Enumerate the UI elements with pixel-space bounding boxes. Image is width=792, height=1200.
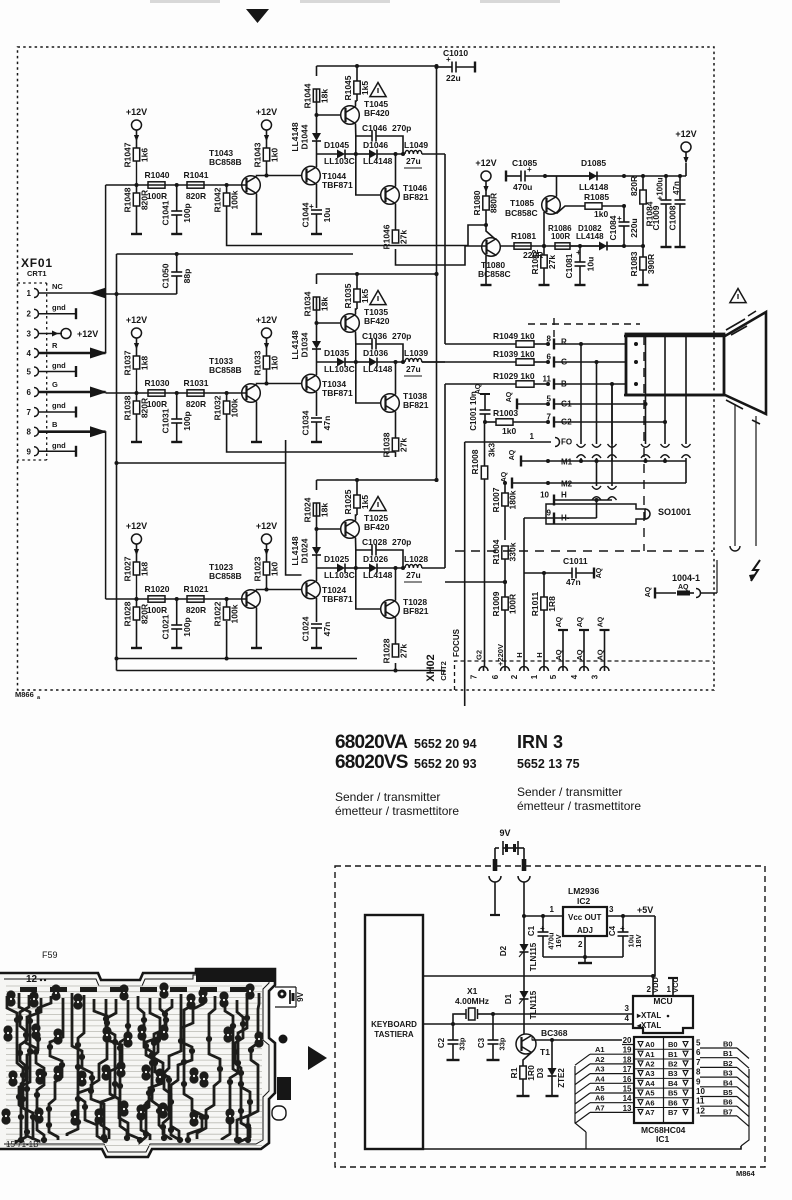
connector XH02 dashed box — [455, 661, 714, 690]
ground for C1034 — [311, 441, 322, 443]
svg-text:3k3: 3k3 — [487, 443, 497, 457]
svg-text:M866: M866 — [15, 690, 34, 699]
svg-text:X1: X1 — [467, 986, 478, 996]
svg-text:D1045: D1045 — [324, 140, 349, 150]
svg-text:3: 3 — [609, 905, 614, 914]
svg-text:IC1: IC1 — [656, 1134, 670, 1144]
spark gap columns R G B — [580, 344, 582, 444]
pin 5 gnd stub — [39, 371, 77, 373]
svg-text:R1033: R1033 — [253, 350, 263, 375]
svg-text:D1085: D1085 — [581, 158, 606, 168]
svg-text:16: 16 — [623, 1075, 632, 1084]
svg-text:ZTE2: ZTE2 — [557, 1068, 566, 1088]
row B to CRT pin 11 — [445, 383, 516, 385]
svg-text:19: 19 — [623, 1046, 632, 1055]
svg-text:MCU: MCU — [653, 996, 672, 1006]
svg-text:22u: 22u — [446, 73, 461, 83]
svg-text:17: 17 — [623, 1065, 632, 1074]
svg-text:A5: A5 — [645, 1089, 655, 1098]
PCB scanlines — [6, 986, 262, 1146]
svg-text:C1046: C1046 — [362, 123, 387, 133]
transistor T1034 TBF871 — [302, 374, 321, 393]
svg-text:BF420: BF420 — [364, 108, 390, 118]
supply rail +12V out — [545, 175, 686, 177]
svg-text:+12V: +12V — [475, 158, 496, 168]
resistor R1037 1k8 — [136, 348, 138, 356]
svg-text:+12V: +12V — [256, 107, 277, 117]
svg-text:100R: 100R — [147, 605, 167, 615]
svg-text:33p: 33p — [498, 1037, 507, 1050]
svg-text:7: 7 — [547, 413, 552, 422]
svg-text:L1039: L1039 — [404, 348, 428, 358]
transistor T1025 BF420 — [341, 520, 360, 539]
diode D1034 LL4148 — [316, 349, 318, 362]
svg-text:R1038: R1038 — [382, 432, 392, 457]
svg-text:2: 2 — [27, 310, 32, 319]
svg-text:R1028: R1028 — [123, 601, 133, 626]
svg-text:Sender / transmitter: Sender / transmitter — [335, 790, 440, 804]
transistor T1085 BC858C — [542, 196, 561, 215]
svg-text:R1041: R1041 — [183, 170, 208, 180]
wire T1080 collector — [486, 225, 495, 239]
diode D1044 LL4148 — [316, 141, 318, 154]
svg-text:5: 5 — [549, 674, 558, 679]
svg-text:C1041: C1041 — [161, 200, 171, 225]
resistor R1083 390R — [642, 246, 644, 257]
svg-text:R1048: R1048 — [123, 187, 133, 212]
svg-text:D2: D2 — [499, 945, 508, 956]
svg-text:+100u: +100u — [656, 177, 665, 200]
svg-text:D1026: D1026 — [363, 554, 388, 564]
svg-text:T1: T1 — [540, 1047, 550, 1057]
resistor R1022 100k — [226, 599, 228, 607]
svg-text:5: 5 — [547, 395, 552, 404]
svg-text:A4: A4 — [595, 1074, 605, 1083]
svg-text:9: 9 — [696, 1077, 701, 1086]
svg-text:C1044: C1044 — [301, 202, 311, 227]
wire +5V to VDD — [653, 916, 655, 976]
svg-text:LL103C: LL103C — [324, 364, 355, 374]
svg-text:+12V: +12V — [256, 315, 277, 325]
PCB top pads row — [20, 987, 247, 992]
resistor R1044 18k — [316, 89, 318, 115]
svg-text:+220V: +220V — [496, 644, 505, 666]
resistor R1082 27k — [543, 246, 545, 255]
svg-text:18: 18 — [623, 1055, 632, 1064]
svg-text:D1: D1 — [504, 993, 513, 1004]
svg-text:1R0: 1R0 — [526, 1065, 536, 1081]
svg-text:C1028: C1028 — [362, 537, 387, 547]
svg-text:H: H — [515, 652, 524, 657]
capacitor C1034 47n — [316, 392, 318, 416]
svg-text:18V: 18V — [634, 934, 643, 947]
svg-text:R1083: R1083 — [629, 251, 639, 276]
svg-text:18k: 18k — [320, 503, 330, 517]
svg-text:+12V: +12V — [126, 315, 147, 325]
wire T1085 base drop — [543, 212, 545, 246]
row R to CRT pin 8 — [445, 343, 516, 345]
svg-text:AQ: AQ — [509, 449, 516, 460]
wire battery + down — [494, 882, 496, 915]
svg-text:C1031: C1031 — [161, 408, 171, 433]
svg-text:1: 1 — [530, 432, 535, 441]
wire T1033 collector — [257, 384, 267, 385]
bottom rail keyboard — [423, 1146, 741, 1149]
svg-text:ADJ: ADJ — [577, 926, 593, 935]
wire to T1044 base — [267, 175, 302, 177]
svg-text:AQ: AQ — [506, 391, 513, 402]
CRT anode lead — [734, 404, 736, 546]
wire R1022 to bottom return — [226, 621, 228, 659]
PCB pads — [1, 982, 263, 1143]
svg-text:A7: A7 — [645, 1108, 655, 1117]
svg-text:BC858C: BC858C — [478, 269, 511, 279]
svg-text:+12V: +12V — [675, 129, 696, 139]
svg-text:R1004: R1004 — [491, 539, 501, 564]
svg-text:2: 2 — [510, 674, 519, 679]
wire T1045 emitter to diode row — [355, 136, 357, 154]
svg-text:R1038: R1038 — [123, 395, 133, 420]
resistor R1047 1k6 — [136, 140, 138, 148]
svg-text:9V: 9V — [296, 991, 305, 1001]
wire KEYBOARD to VDD row — [424, 975, 653, 977]
svg-text:B6: B6 — [668, 1098, 678, 1107]
wire R1026 bottom — [395, 663, 397, 671]
svg-text:R1023: R1023 — [253, 556, 263, 581]
svg-text:B7: B7 — [723, 1107, 733, 1116]
svg-text:BC368: BC368 — [541, 1028, 568, 1038]
svg-text:Sender / transmitter: Sender / transmitter — [517, 785, 622, 799]
svg-text:C4: C4 — [608, 925, 617, 936]
svg-text:820R: 820R — [140, 190, 150, 210]
svg-text:1k0: 1k0 — [270, 562, 280, 576]
svg-text:10: 10 — [696, 1087, 705, 1096]
svg-text:330k: 330k — [508, 542, 518, 561]
svg-text:AQ: AQ — [501, 471, 508, 482]
svg-text:R1039 1k0: R1039 1k0 — [493, 349, 535, 359]
svg-text:gnd: gnd — [52, 303, 66, 312]
svg-text:1k0: 1k0 — [594, 209, 608, 219]
svg-text:BC858B: BC858B — [209, 365, 242, 375]
svg-text:B5: B5 — [668, 1089, 678, 1098]
svg-text:R1040: R1040 — [144, 170, 169, 180]
svg-text:1k8: 1k8 — [140, 562, 150, 576]
left bus vertical — [575, 1066, 586, 1132]
wire shield row top — [117, 253, 354, 255]
svg-text:R1034: R1034 — [303, 291, 313, 316]
wire T1043 emitter to ground — [256, 194, 258, 235]
svg-text:27k: 27k — [399, 230, 409, 244]
svg-text:émetteur / trasmettitore: émetteur / trasmettitore — [335, 804, 459, 818]
resistor R1046 27k — [395, 204, 397, 231]
svg-text:R1082: R1082 — [530, 249, 540, 274]
svg-text:11: 11 — [696, 1097, 705, 1106]
wire T1028 base from diode node — [356, 568, 381, 609]
svg-text:R1037: R1037 — [123, 350, 133, 375]
resistor R1048 820R — [136, 185, 138, 193]
resistor R1038 820R — [136, 393, 138, 401]
CRT flash lead — [755, 416, 757, 546]
svg-text:▸XTAL: ▸XTAL — [636, 1011, 661, 1020]
keyboard PCB board outline — [0, 969, 275, 1157]
svg-text:BF821: BF821 — [403, 606, 429, 616]
svg-text:C1011: C1011 — [563, 556, 588, 566]
ground rail IC2 — [543, 956, 623, 958]
svg-text:BC858B: BC858B — [209, 157, 242, 167]
svg-text:100R: 100R — [147, 191, 167, 201]
svg-text:R1022: R1022 — [213, 601, 223, 626]
svg-text:C1008: C1008 — [668, 205, 678, 230]
pin 3 +12V — [39, 333, 63, 335]
svg-text:TLN115: TLN115 — [529, 990, 538, 1019]
svg-text:B5: B5 — [723, 1088, 733, 1097]
capacitor C1041 100p — [176, 185, 178, 211]
top rail of output stage — [317, 273, 437, 275]
resistor R1034 18k — [316, 297, 318, 323]
svg-text:1k5: 1k5 — [360, 289, 370, 303]
svg-text:IRN 3: IRN 3 — [517, 732, 563, 752]
svg-text:C1084: C1084 — [608, 215, 618, 240]
svg-text:4: 4 — [27, 349, 32, 358]
svg-text:G2: G2 — [475, 650, 484, 660]
svg-text:TBF871: TBF871 — [322, 180, 353, 190]
svg-text:B4: B4 — [723, 1078, 733, 1087]
svg-text:A7: A7 — [595, 1103, 605, 1112]
svg-text:AQ: AQ — [596, 649, 605, 660]
svg-text:XF01: XF01 — [21, 256, 53, 270]
PCB rounded hole — [272, 1106, 286, 1120]
pin 8 B line and arrow — [39, 430, 106, 433]
svg-text:R1020: R1020 — [144, 584, 169, 594]
PCB traces — [7, 993, 259, 1142]
row 246 supply — [501, 245, 644, 247]
capacitor C1050 88p — [176, 254, 178, 272]
transistor T1045 BF420 — [341, 106, 360, 125]
capacitor C1024 47n — [316, 598, 318, 622]
svg-text:M864: M864 — [736, 1169, 756, 1178]
svg-text:180k: 180k — [508, 490, 518, 509]
CRT funnel — [624, 312, 766, 414]
svg-text:2: 2 — [578, 940, 583, 949]
svg-text:B4: B4 — [668, 1079, 678, 1088]
connector XF01 dashed box — [18, 283, 47, 460]
svg-text:VDD: VDD — [651, 977, 660, 993]
svg-text:820R: 820R — [186, 605, 206, 615]
svg-text:émetteur / trasmettitore: émetteur / trasmettitore — [517, 799, 641, 813]
MCU block — [633, 996, 693, 1033]
wire T1046 base from diode node — [356, 154, 381, 195]
wire T1044 collector riser — [316, 154, 318, 167]
IC1 port cells — [638, 1042, 643, 1047]
svg-text:M1: M1 — [561, 458, 573, 467]
svg-text:1k5: 1k5 — [360, 495, 370, 509]
svg-text:B2: B2 — [723, 1059, 733, 1068]
svg-text:6: 6 — [27, 388, 32, 397]
PCB black square — [277, 1077, 291, 1100]
svg-text:R1028: R1028 — [382, 638, 392, 663]
wire T1085 emitter to R1085 — [557, 206, 586, 214]
svg-text:270p: 270p — [392, 331, 411, 341]
svg-text:R1027: R1027 — [123, 556, 133, 581]
svg-text:AQ: AQ — [598, 616, 605, 627]
svg-text:B3: B3 — [723, 1069, 733, 1078]
svg-text:R1011: R1011 — [530, 591, 540, 616]
svg-text:R1029 1k0: R1029 1k0 — [493, 371, 535, 381]
svg-text:8: 8 — [696, 1068, 701, 1077]
svg-text:R1035: R1035 — [343, 283, 353, 308]
wire T1038 base from diode node — [356, 362, 381, 403]
svg-text:1: 1 — [530, 674, 539, 679]
svg-text:B2: B2 — [668, 1060, 678, 1069]
svg-text:B3: B3 — [668, 1069, 678, 1078]
resistor R1033 1k0 — [266, 348, 268, 356]
svg-text:LL103C: LL103C — [324, 570, 355, 580]
wire T1028 collector — [395, 568, 397, 601]
svg-text:G1: G1 — [561, 400, 572, 409]
capacitor C1021 100p — [176, 599, 178, 625]
svg-text:A6: A6 — [645, 1098, 655, 1107]
svg-text:+5V: +5V — [637, 905, 653, 915]
pin 2 gnd stub — [39, 313, 77, 315]
svg-text:15: 15 — [623, 1085, 632, 1094]
svg-text:9V: 9V — [499, 828, 510, 838]
wire lower row to XTAL4 — [424, 1023, 633, 1025]
row G to CRT pin 6 — [422, 361, 516, 363]
pin 6 G line and arrow — [39, 391, 106, 394]
svg-text:Vcc OUT: Vcc OUT — [568, 913, 601, 922]
right bus vertical — [741, 1069, 749, 1146]
wire 582 row — [445, 581, 505, 583]
svg-text:R1: R1 — [509, 1067, 519, 1078]
svg-text:LL4148: LL4148 — [576, 232, 604, 241]
resistor R1011 1R8 — [543, 573, 545, 597]
svg-text:100k: 100k — [230, 604, 240, 623]
svg-text:5652 20 94: 5652 20 94 — [414, 737, 477, 751]
svg-text:47n: 47n — [322, 416, 332, 431]
svg-text:A3: A3 — [595, 1065, 605, 1074]
svg-text:1004-1: 1004-1 — [672, 573, 700, 583]
svg-text:47n: 47n — [322, 622, 332, 637]
capacitor C1044 10u — [316, 184, 318, 208]
svg-text:R1049 1k0: R1049 1k0 — [493, 331, 535, 341]
svg-text:20: 20 — [623, 1036, 632, 1045]
svg-text:1: 1 — [550, 905, 555, 914]
svg-text:FOCUS: FOCUS — [452, 628, 461, 657]
svg-text:100R: 100R — [147, 399, 167, 409]
svg-text:R1024: R1024 — [303, 497, 313, 522]
svg-text:1k0: 1k0 — [502, 426, 516, 436]
svg-text:6: 6 — [491, 674, 500, 679]
svg-text:4.00MHz: 4.00MHz — [455, 996, 489, 1006]
svg-text:G2: G2 — [561, 418, 572, 427]
svg-text:R1042: R1042 — [213, 187, 223, 212]
svg-text:BF420: BF420 — [364, 522, 390, 532]
svg-text:10: 10 — [540, 491, 549, 500]
svg-text:1: 1 — [27, 289, 32, 298]
wire channel B output rise — [444, 384, 446, 568]
svg-text:C1034: C1034 — [301, 410, 311, 435]
svg-text:R1043: R1043 — [253, 142, 263, 167]
svg-text:AQ: AQ — [596, 567, 603, 578]
svg-text:27u: 27u — [406, 364, 421, 374]
svg-text:33p: 33p — [458, 1037, 467, 1050]
svg-text:1k6: 1k6 — [140, 148, 150, 162]
svg-text:+: + — [446, 55, 451, 64]
wire T1 collector row — [532, 1037, 552, 1041]
transistor T1046 BF821 — [381, 186, 400, 205]
svg-text:H: H — [561, 491, 567, 500]
svg-text:88p: 88p — [182, 269, 192, 284]
ground for R1028 — [131, 647, 142, 649]
svg-text:820R: 820R — [186, 191, 206, 201]
socket columns down — [645, 395, 647, 444]
svg-text:F59: F59 — [42, 950, 58, 960]
svg-text:G: G — [561, 358, 567, 367]
svg-text:BF821: BF821 — [403, 192, 429, 202]
svg-text:270p: 270p — [392, 123, 411, 133]
resistor R1080 880R — [485, 191, 487, 196]
svg-text:12: 12 — [26, 974, 38, 985]
svg-text:27k: 27k — [399, 438, 409, 452]
svg-text:B0: B0 — [668, 1040, 678, 1049]
svg-text:D1036: D1036 — [363, 348, 388, 358]
svg-text:A1: A1 — [645, 1050, 655, 1059]
svg-text:100p: 100p — [182, 617, 192, 636]
svg-text:A2: A2 — [645, 1060, 655, 1069]
svg-text:+: + — [527, 165, 532, 174]
svg-text:15 71-1B: 15 71-1B — [6, 1140, 38, 1149]
svg-text:4: 4 — [570, 674, 579, 679]
svg-text:BC858B: BC858B — [209, 571, 242, 581]
top pointer triangle — [246, 9, 269, 23]
wire G drop riser — [285, 440, 287, 463]
svg-text:47n: 47n — [566, 577, 581, 587]
warning triangle — [370, 290, 386, 304]
PCB battery 9V — [278, 990, 287, 999]
wire shield row bottom — [117, 658, 358, 660]
svg-text:TBF871: TBF871 — [322, 388, 353, 398]
svg-text:AQ: AQ — [577, 616, 584, 627]
IC1 block MC68HC04 — [634, 1037, 693, 1123]
svg-text:5: 5 — [27, 368, 32, 377]
svg-text:R1003: R1003 — [493, 408, 518, 418]
svg-text:R1047: R1047 — [123, 142, 133, 167]
svg-text:BC858C: BC858C — [505, 208, 538, 218]
page top cut-off marks — [150, 0, 220, 3]
svg-text:27u: 27u — [406, 156, 421, 166]
svg-text:C1036: C1036 — [362, 331, 387, 341]
svg-text:7: 7 — [27, 408, 32, 417]
wire T1085 collector — [556, 176, 558, 197]
svg-text:BF821: BF821 — [403, 400, 429, 410]
wire T1035 emitter — [355, 332, 357, 345]
pin 7 gnd stub — [39, 411, 77, 413]
resistor R1043 1k0 — [266, 140, 268, 148]
svg-text:4: 4 — [625, 1014, 630, 1023]
svg-text:+12V: +12V — [77, 329, 98, 339]
wire H- to XH02 pin 2 — [523, 518, 525, 666]
svg-text:270p: 270p — [392, 537, 411, 547]
svg-text:R1009: R1009 — [491, 591, 501, 616]
svg-text:C1085: C1085 — [512, 158, 537, 168]
keyboard dashed border M864 — [335, 866, 765, 1167]
svg-text:100R: 100R — [551, 232, 570, 241]
svg-text:1R8: 1R8 — [547, 596, 557, 612]
svg-text:C1081: C1081 — [564, 253, 574, 278]
svg-text:gnd: gnd — [52, 441, 66, 450]
CRT socket block — [626, 334, 724, 395]
svg-text:10u: 10u — [322, 208, 332, 223]
